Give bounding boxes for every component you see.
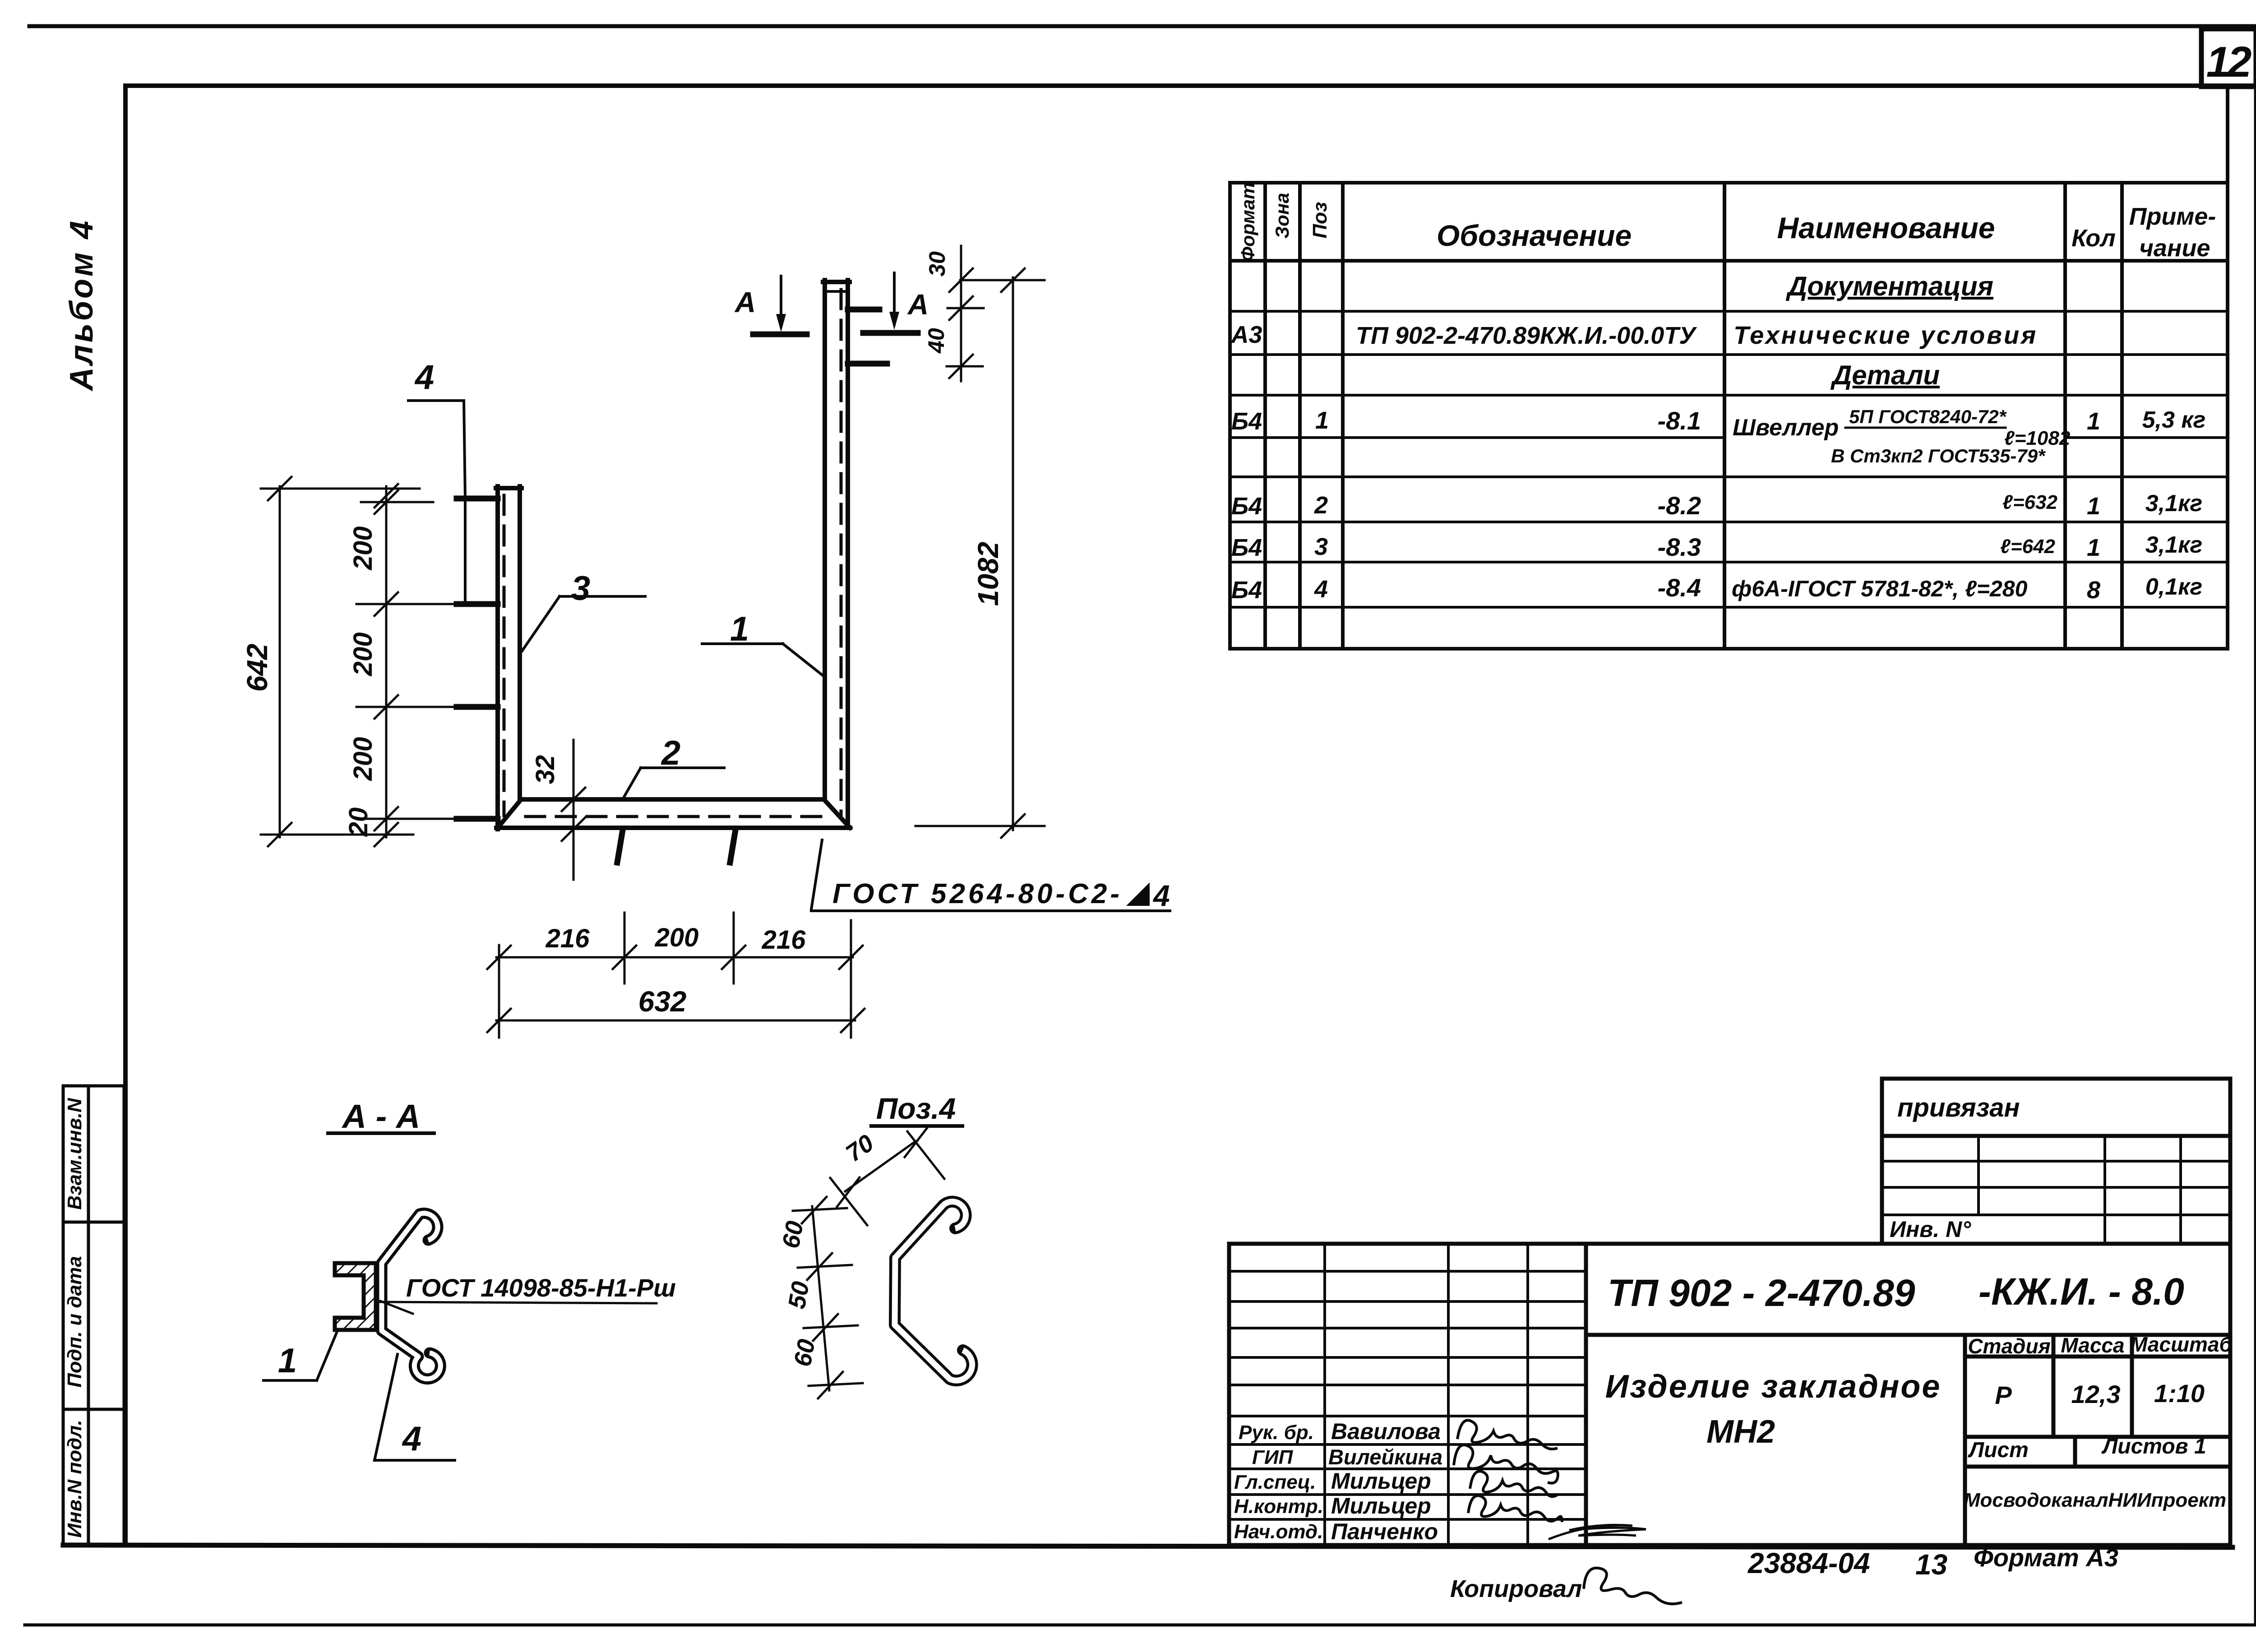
dimension 632 — [487, 1009, 864, 1032]
svg-text:40: 40 — [924, 328, 949, 354]
svg-text:Технические условия: Технические условия — [1734, 321, 2038, 349]
svg-text:3,1кг: 3,1кг — [2145, 532, 2202, 558]
dimension 642 — [261, 477, 420, 846]
svg-text:Стадия: Стадия — [1968, 1334, 2050, 1358]
svg-text:Панченко: Панченко — [1331, 1519, 1438, 1544]
svg-text:Приме-: Приме- — [2129, 203, 2216, 230]
svg-text:3: 3 — [1314, 533, 1328, 560]
anchor stubs item 4 left side — [457, 498, 498, 819]
svg-text:4: 4 — [1314, 576, 1328, 603]
svg-text:Вавилова: Вавилова — [1331, 1419, 1441, 1444]
svg-text:А - А: А - А — [342, 1098, 421, 1135]
svg-text:5,3 кг: 5,3 кг — [2142, 407, 2206, 433]
svg-text:216: 216 — [762, 925, 806, 955]
section mark A right — [863, 330, 918, 336]
page top edge — [29, 24, 2256, 28]
svg-text:Инв. N°: Инв. N° — [1890, 1217, 1971, 1242]
svg-text:Н.контр.: Н.контр. — [1234, 1495, 1323, 1518]
label 1 leader — [702, 644, 824, 677]
svg-text:70: 70 — [841, 1129, 879, 1167]
svg-text:1: 1 — [2087, 493, 2100, 520]
svg-text:ТП 902-2-470.89КЖ.И.-00.0ТУ: ТП 902-2-470.89КЖ.И.-00.0ТУ — [1356, 322, 1697, 349]
svg-text:ТП 902 - 2-470.89: ТП 902 - 2-470.89 — [1608, 1272, 1915, 1314]
channel item 2 dashed axis — [526, 815, 822, 818]
svg-text:Масса: Масса — [2061, 1334, 2124, 1357]
svg-text:Мильцер: Мильцер — [1331, 1493, 1431, 1518]
signature Panchenko flourish — [1549, 1525, 1646, 1539]
label 4 leader — [408, 401, 465, 605]
svg-text:-8.3: -8.3 — [1658, 533, 1701, 561]
left stamp boxes — [63, 1086, 124, 1545]
sheet number box — [2201, 29, 2256, 87]
signature table grid — [1229, 1244, 1586, 1545]
svg-text:4: 4 — [414, 358, 434, 397]
signature Kopirovala — [1584, 1568, 1682, 1604]
svg-text:Кол: Кол — [2071, 225, 2116, 252]
svg-text:Рук. бр.: Рук. бр. — [1239, 1421, 1314, 1444]
svg-text:200: 200 — [348, 526, 378, 571]
svg-text:200: 200 — [655, 923, 699, 952]
svg-text:ℓ=642: ℓ=642 — [2000, 535, 2055, 558]
section A-A title underline — [328, 1131, 434, 1135]
section mark A left — [753, 332, 807, 337]
svg-text:23884-04: 23884-04 — [1747, 1547, 1870, 1579]
svg-text:Листов 1: Листов 1 — [2101, 1435, 2206, 1458]
svg-text:В Ст3кп2 ГОСТ535-79*: В Ст3кп2 ГОСТ535-79* — [1831, 445, 2046, 466]
dimension 216/200/216 — [487, 913, 863, 1038]
svg-text:3,1кг: 3,1кг — [2145, 490, 2202, 517]
svg-text:ГИП: ГИП — [1252, 1446, 1294, 1468]
svg-text:-КЖ.И. - 8.0: -КЖ.И. - 8.0 — [1979, 1270, 2184, 1313]
page bottom edge — [25, 1624, 2256, 1627]
svg-text:МосводоканалНИИпроект: МосводоканалНИИпроект — [1964, 1489, 2226, 1511]
svg-text:2: 2 — [661, 734, 680, 772]
label 1 leader (A-A) — [264, 1329, 338, 1380]
dimension chain 200/200/200/20 — [356, 484, 456, 846]
svg-text:Инв.N подл.: Инв.N подл. — [64, 1420, 86, 1538]
dimension 1082 — [915, 268, 1045, 838]
svg-text:МН2: МН2 — [1706, 1414, 1775, 1450]
svg-text:30: 30 — [925, 251, 950, 277]
svg-text:привязан: привязан — [1897, 1093, 2020, 1122]
svg-text:Нач.отд.: Нач.отд. — [1234, 1521, 1323, 1543]
svg-text:0,1кг: 0,1кг — [2145, 574, 2202, 600]
svg-text:200: 200 — [348, 737, 378, 781]
channel item 3 (left vertical) — [496, 486, 522, 829]
spec table grid — [1230, 89, 2228, 649]
svg-text:4: 4 — [1152, 879, 1170, 912]
dimension 30/40 — [947, 246, 984, 381]
signature Miltser 2 — [1468, 1495, 1562, 1522]
svg-text:Б4: Б4 — [1231, 577, 1262, 604]
label 4 leader (A-A) — [374, 1354, 455, 1460]
svg-text:Р: Р — [1995, 1381, 2012, 1409]
svg-text:-8.2: -8.2 — [1658, 491, 1701, 520]
svg-text:Лист: Лист — [1968, 1438, 2029, 1462]
svg-text:1: 1 — [278, 1342, 297, 1380]
svg-text:чание: чание — [2139, 235, 2210, 262]
svg-text:ГОСТ 5264-80-С2-: ГОСТ 5264-80-С2- — [832, 878, 1123, 909]
weld note leader — [811, 840, 1170, 911]
signature Miltser 1 — [1470, 1471, 1558, 1496]
signature Vileykina — [1454, 1445, 1558, 1483]
pos4 dimension 70 — [830, 1128, 944, 1225]
dimension 32 — [562, 740, 585, 880]
svg-text:Поз: Поз — [1309, 202, 1331, 239]
pos4 title underline — [871, 1124, 962, 1128]
svg-text:ГОСТ 14098-85-Н1-Рш: ГОСТ 14098-85-Н1-Рш — [406, 1274, 676, 1302]
svg-text:Документация: Документация — [1785, 271, 1993, 301]
channel item 1 (tall vertical) — [823, 280, 850, 828]
svg-text:ℓ=632: ℓ=632 — [2002, 491, 2057, 513]
pos4 dimension 60/50/60 — [793, 1197, 863, 1398]
svg-text:Вилейкина: Вилейкина — [1328, 1445, 1442, 1469]
drawing frame — [125, 83, 2256, 88]
svg-text:Гл.спец.: Гл.спец. — [1234, 1471, 1316, 1493]
svg-text:Б4: Б4 — [1231, 493, 1262, 520]
svg-text:1: 1 — [2087, 408, 2100, 435]
svg-text:Зона: Зона — [1271, 193, 1293, 238]
svg-text:60: 60 — [777, 1219, 809, 1251]
svg-text:3: 3 — [571, 569, 590, 608]
svg-text:Мильцер: Мильцер — [1331, 1468, 1431, 1494]
signature squiggles — [1454, 1420, 1682, 1604]
svg-text:50: 50 — [783, 1279, 815, 1311]
svg-text:Б4: Б4 — [1231, 534, 1262, 561]
label 3 leader — [522, 596, 645, 651]
svg-text:1: 1 — [1315, 407, 1329, 434]
svg-text:1:10: 1:10 — [2154, 1379, 2205, 1407]
svg-text:13: 13 — [1915, 1548, 1947, 1581]
svg-text:200: 200 — [348, 632, 378, 677]
svg-text:ф6А-IГОСТ 5781-82*, ℓ=280: ф6А-IГОСТ 5781-82*, ℓ=280 — [1732, 576, 2028, 601]
svg-text:-8.4: -8.4 — [1658, 573, 1701, 602]
svg-text:Подп. и дата: Подп. и дата — [64, 1256, 86, 1387]
channel item 3 dashed axis — [503, 495, 506, 816]
svg-text:5П ГОСТ8240-72*: 5П ГОСТ8240-72* — [1849, 406, 2007, 427]
svg-text:Б4: Б4 — [1231, 408, 1262, 435]
svg-text:Швеллер: Швеллер — [1733, 415, 1839, 441]
svg-text:-8.1: -8.1 — [1658, 406, 1701, 435]
svg-text:Обозначение: Обозначение — [1437, 219, 1632, 252]
svg-text:8: 8 — [2087, 577, 2100, 604]
svg-text:1: 1 — [730, 610, 749, 648]
channel item 1 dashed axis — [840, 290, 843, 817]
label 2 leader — [623, 768, 724, 798]
svg-text:2: 2 — [1314, 492, 1328, 519]
anchor stubs item 4 right side — [848, 309, 887, 364]
svg-text:Детали: Детали — [1830, 360, 1940, 390]
svg-text:Формат: Формат — [1237, 182, 1258, 261]
svg-text:1082: 1082 — [972, 542, 1004, 606]
rebar rod item 4 along web — [382, 1213, 440, 1379]
svg-text:А: А — [734, 286, 756, 318]
svg-text:А3: А3 — [1230, 321, 1262, 348]
svg-text:Формат А3: Формат А3 — [1974, 1543, 2118, 1572]
svg-text:12,3: 12,3 — [2071, 1380, 2121, 1408]
svg-text:12: 12 — [2206, 38, 2251, 86]
svg-text:32: 32 — [531, 755, 560, 784]
svg-text:60: 60 — [789, 1337, 821, 1369]
anchor stubs item 4 bottom — [617, 830, 735, 863]
pos4 bent rod — [895, 1202, 972, 1380]
svg-text:Масштаб: Масштаб — [2130, 1333, 2233, 1356]
inventory box (privyazan) — [1882, 1079, 2230, 1244]
svg-text:Наименование: Наименование — [1777, 211, 1995, 245]
channel item 2 (bottom horizontal) — [496, 799, 850, 828]
svg-text:1: 1 — [2087, 534, 2100, 561]
svg-text:Взам.инв.N: Взам.инв.N — [64, 1098, 86, 1210]
svg-text:Поз.4: Поз.4 — [876, 1092, 956, 1125]
svg-text:642: 642 — [241, 644, 273, 692]
section A-A channel profile — [335, 1263, 376, 1330]
signature Vavilova — [1457, 1420, 1558, 1449]
weld note GOST 14098 underline — [380, 1301, 656, 1314]
weld flag triangle — [1126, 882, 1150, 906]
title block grid — [1229, 1244, 2230, 1545]
svg-text:Копировал: Копировал — [1450, 1575, 1582, 1602]
svg-text:216: 216 — [546, 924, 590, 953]
svg-text:20: 20 — [344, 808, 373, 837]
svg-text:Изделие закладное: Изделие закладное — [1605, 1369, 1942, 1405]
svg-text:4: 4 — [402, 1420, 421, 1458]
svg-text:Альбом 4: Альбом 4 — [64, 219, 100, 392]
svg-text:А: А — [907, 288, 929, 321]
svg-text:632: 632 — [638, 985, 687, 1018]
